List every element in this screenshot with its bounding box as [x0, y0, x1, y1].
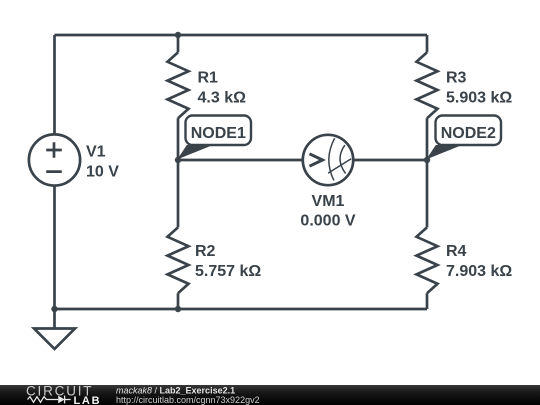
wire R3 top stub — [426, 35, 429, 52]
svg-text:R1: R1 — [198, 70, 219, 87]
svg-text:R2: R2 — [195, 243, 216, 260]
svg-text:7.903 kΩ: 7.903 kΩ — [446, 263, 512, 280]
svg-text:R4: R4 — [446, 243, 467, 260]
svg-text:5.757 kΩ: 5.757 kΩ — [195, 263, 261, 280]
voltage source V1 — [29, 134, 80, 185]
wire left rail lower (V1 to bottom) — [53, 186, 56, 309]
node NODE2 flag box — [436, 116, 502, 146]
wire R1 to NODE1 — [177, 118, 180, 160]
voltmeter VM1 scale arc left — [329, 138, 335, 180]
resistor R1 — [168, 52, 189, 118]
wire NODE2 to R4 — [426, 160, 429, 227]
resistor R2 — [168, 227, 189, 293]
wire bottom rail — [55, 308, 428, 311]
footer bar — [0, 385, 540, 405]
junction dot top of R1 — [175, 32, 181, 38]
svg-text:mackak8 / Lab2_Exercise2.1: mackak8 / Lab2_Exercise2.1 — [116, 385, 235, 395]
svg-text:LAB: LAB — [74, 395, 102, 405]
CircuitLab logo resistor-diode glyph — [28, 396, 71, 404]
node NODE1 flag box — [186, 116, 252, 146]
wire R1 top stub — [177, 35, 180, 52]
node NODE1 pointer — [177, 145, 213, 159]
svg-text:NODE1: NODE1 — [191, 125, 246, 142]
wire VM1 to NODE2 — [353, 159, 427, 162]
wire NODE1 to R2 — [177, 160, 180, 227]
svg-text:R3: R3 — [446, 70, 467, 87]
svg-text:NODE2: NODE2 — [441, 125, 496, 142]
CircuitLab logo diode triangle — [58, 396, 64, 404]
voltmeter VM1 chevron — [310, 154, 323, 166]
wire top rail — [55, 34, 428, 37]
svg-text:4.3 kΩ: 4.3 kΩ — [198, 90, 247, 107]
voltmeter VM1 — [303, 135, 353, 185]
resistor R3 — [417, 52, 438, 118]
wire R4 bottom stub — [426, 293, 429, 309]
junction dot NODE1 — [175, 157, 181, 163]
wire NODE1 to VM1 — [178, 159, 303, 162]
wire R3 to NODE2 — [426, 118, 429, 160]
svg-text:10 V: 10 V — [86, 164, 119, 181]
svg-text:http://circuitlab.com/cgnn73x9: http://circuitlab.com/cgnn73x922gv2 — [116, 395, 260, 405]
svg-text:V1: V1 — [86, 144, 106, 161]
ground — [53, 309, 56, 329]
voltmeter VM1 needle — [328, 159, 351, 173]
svg-text:5.903 kΩ: 5.903 kΩ — [446, 90, 512, 107]
svg-text:0.000 V: 0.000 V — [300, 213, 355, 230]
wire left rail upper (to V1) — [53, 35, 56, 135]
wire R2 bottom stub — [177, 293, 180, 309]
resistor R4 — [417, 227, 438, 293]
voltmeter VM1 scale arc right — [340, 145, 346, 173]
node NODE2 pointer — [426, 145, 462, 159]
junction dot bottom of R2 — [175, 306, 181, 312]
junction dot ground — [51, 306, 57, 312]
junction dot NODE2 — [424, 157, 430, 163]
svg-text:VM1: VM1 — [312, 193, 345, 210]
